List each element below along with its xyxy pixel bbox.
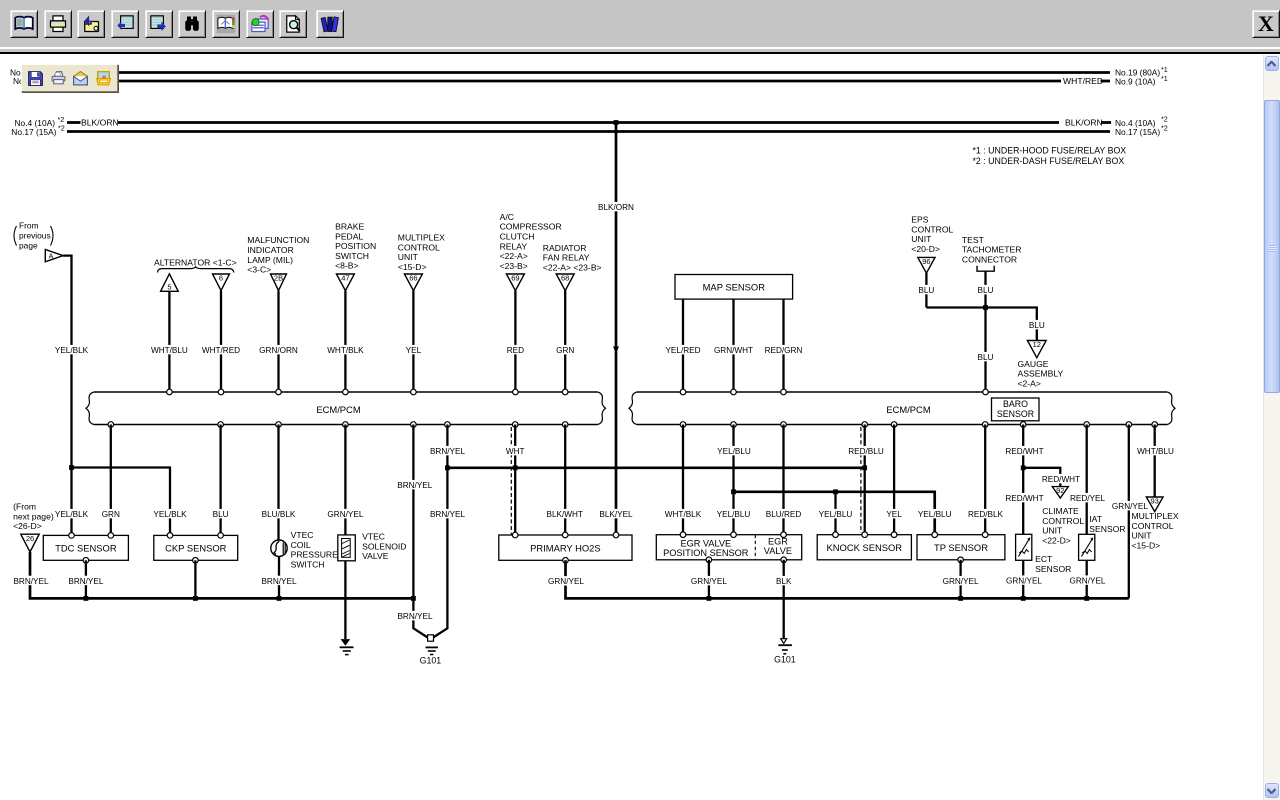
svg-text:CONTROL: CONTROL	[398, 242, 440, 252]
node junction WHT y468	[513, 465, 518, 470]
component IAT SENSOR box	[1079, 534, 1095, 560]
connector from-previous-page text	[14, 221, 53, 251]
connector triangle 68 radiator fan relay	[556, 274, 574, 291]
pin ECM right bottom x=1023.2	[1020, 422, 1026, 428]
svg-text:ASSEMBLY: ASSEMBLY	[1018, 369, 1064, 379]
wire BRN/YEL ckp to bus	[194, 560, 196, 598]
wire WHT ecm to HO2S	[514, 425, 516, 536]
label MULTIPLEX CONTROL UNIT <15-D> right	[1132, 511, 1179, 550]
component VTEC coil pressure switch circle	[271, 540, 287, 556]
label wire RED	[507, 345, 524, 355]
pin ECM right top x=783.5	[781, 389, 787, 395]
pin ECM left top x=169.4	[167, 389, 173, 395]
pin TDC top 2	[108, 533, 114, 539]
connector triangle 96 EPS	[918, 257, 935, 273]
wire WHT/BLU alternator-5 to ECM	[168, 291, 170, 392]
svg-text:FAN RELAY: FAN RELAY	[543, 253, 590, 263]
svg-text:GRN: GRN	[102, 510, 120, 519]
wire WHT/BLK ecm to egr	[682, 425, 684, 535]
label wire BRN/YEL left	[13, 576, 48, 586]
svg-text:(From: (From	[13, 502, 36, 512]
svg-text:*1: *1	[1161, 74, 1168, 83]
connector triangle 69 A/C relay	[506, 274, 524, 291]
label wire BRN/YEL vtec switch	[261, 576, 296, 586]
node junction bus end BRN/YEL	[411, 596, 416, 601]
pin ECM left bottom x=447.4	[445, 422, 451, 428]
svg-text:*2: *2	[1161, 124, 1168, 133]
label wire YEL/BLK upper	[55, 345, 89, 355]
svg-text:<15-D>: <15-D>	[1132, 541, 1161, 551]
svg-text:SWITCH: SWITCH	[291, 560, 325, 570]
pin ECM right bottom x=683	[680, 422, 686, 428]
pin KNOCK top 2	[862, 532, 868, 538]
wire WHT/RED alternator-6 to ECM	[220, 291, 222, 392]
svg-text:POSITION SENSOR: POSITION SENSOR	[663, 548, 749, 558]
label EPS CONTROL UNIT <20-D>	[911, 215, 953, 254]
component KNOCK SENSOR box	[817, 535, 911, 560]
wire YEL/BLK branch to CKP	[72, 468, 171, 536]
svg-text:96: 96	[922, 257, 930, 266]
pin ECM right bottom x=783.5	[781, 422, 787, 428]
svg-text:*2: *2	[58, 124, 65, 133]
svg-text:*1: *1	[1161, 65, 1168, 74]
wire shield dashed RED/BLU	[860, 427, 862, 533]
label fuse left hidden No.9	[13, 76, 54, 86]
wire fuse line No.9 (10A) WHT/RED	[65, 80, 1110, 83]
wire BLU/BLK ecm to vtec switch	[277, 425, 279, 541]
label wire BLU/BLK	[262, 509, 296, 519]
label ALTERNATOR <1-C>	[154, 257, 237, 267]
wire BRN/YEL from triangle 26 to bus	[30, 552, 413, 598]
svg-text:<22-A>: <22-A>	[500, 251, 528, 261]
pin EGR top 2	[731, 532, 737, 538]
wire BLU ecm to CKP	[219, 425, 221, 536]
pin ECM left bottom x=110.8	[108, 422, 114, 428]
component MAP SENSOR box	[675, 275, 793, 300]
label wire YEL/BLK ckp	[153, 509, 187, 519]
pin ECM left bottom x=220.6	[218, 422, 224, 428]
svg-text:RED/GRN: RED/GRN	[765, 346, 803, 355]
pin EGR bottom 2	[781, 557, 787, 563]
label MULTIPLEX CONTROL UNIT <15-D> top	[398, 233, 445, 272]
label GAUGE ASSEMBLY <2-A>	[1018, 359, 1064, 389]
wire fuse line No.19 (80A)	[65, 71, 1110, 74]
svg-text:CKP SENSOR: CKP SENSOR	[165, 542, 227, 553]
pin ECM right top x=683	[680, 389, 686, 395]
pin KNOCK top 1	[833, 532, 839, 538]
svg-text:G101: G101	[420, 655, 442, 665]
wire BLU/RED ecm to egr	[782, 425, 784, 535]
pin ECM right top x=733.5	[731, 389, 737, 395]
pin TDC bottom	[83, 558, 89, 564]
svg-text:BLU: BLU	[918, 286, 934, 295]
arrow on BLK/ORN trunk	[613, 347, 619, 354]
pin CKP top 2	[218, 533, 224, 539]
svg-text:IAT: IAT	[1089, 514, 1102, 524]
svg-text:BRN/YEL: BRN/YEL	[13, 577, 48, 586]
wire YEL multiplex to ECM	[412, 291, 414, 392]
svg-text:BRN/YEL: BRN/YEL	[430, 510, 465, 519]
svg-text:GRN/YEL: GRN/YEL	[691, 577, 727, 586]
label wire RED/GRN	[765, 345, 803, 355]
pin ECM right bottom x=985.2	[982, 422, 988, 428]
svg-text:SWITCH: SWITCH	[335, 251, 369, 261]
pin KNOCK top 3	[891, 532, 897, 538]
svg-text:MAP SENSOR: MAP SENSOR	[703, 282, 766, 293]
label wire WHT/BLU	[151, 345, 188, 355]
svg-text:UNIT: UNIT	[398, 252, 419, 262]
svg-text:RED/YEL: RED/YEL	[1070, 494, 1105, 503]
label wire GRN/YEL ect	[1006, 575, 1042, 585]
component ECT SENSOR box	[1016, 534, 1032, 560]
svg-text:ECM/PCM: ECM/PCM	[886, 404, 930, 415]
svg-text:GRN/YEL: GRN/YEL	[1112, 502, 1148, 511]
svg-text:WHT/BLK: WHT/BLK	[665, 510, 702, 519]
wire vtec solenoid to ground	[344, 561, 346, 639]
label wire YEL/BLU egr	[717, 509, 751, 519]
wire BLK/WHT ecm to HO2S	[564, 425, 566, 536]
pin ECM right bottom x=1154.7	[1152, 422, 1158, 428]
node junction bus VTEC switch	[277, 596, 282, 601]
svg-text:G101: G101	[774, 655, 796, 665]
svg-text:<26-D>: <26-D>	[13, 521, 42, 531]
svg-text:CONNECTOR: CONNECTOR	[962, 255, 1017, 265]
wire YEL/BLU ecm to egr	[732, 425, 734, 535]
svg-text:COIL: COIL	[291, 540, 311, 550]
svg-text:YEL: YEL	[406, 346, 422, 355]
ground vtec solenoid	[340, 639, 354, 655]
svg-text:YEL/BLU: YEL/BLU	[717, 447, 751, 456]
svg-text:A/C: A/C	[500, 212, 514, 222]
svg-text:BLK/ORN: BLK/ORN	[598, 203, 634, 212]
label wire GRN/YEL solenoid	[327, 509, 363, 519]
connector triangle 2B MIL	[271, 274, 287, 291]
pin ECM right bottom x=733.5	[731, 422, 737, 428]
wire RED/GRN map to ECM	[782, 299, 784, 392]
svg-text:UNIT: UNIT	[911, 234, 932, 244]
svg-text:LAMP (MIL): LAMP (MIL)	[247, 255, 293, 265]
wire GRN/YEL ect to bus	[1022, 560, 1024, 598]
svg-text:ECM/PCM: ECM/PCM	[316, 404, 360, 415]
svg-text:No.9 (10A): No.9 (10A)	[1115, 77, 1156, 87]
pin EGR bottom 1	[706, 557, 712, 563]
wire GRN/WHT map to ECM	[732, 299, 734, 392]
pin ECM right bottom x=1128.8	[1126, 422, 1132, 428]
pin ECM left top x=278.5	[276, 389, 282, 395]
component VTEC solenoid valve box	[338, 535, 356, 561]
label wire BRN/YEL g101	[397, 611, 432, 621]
note *2 under-dash fuse/relay box	[973, 156, 1125, 166]
pin ECM left top x=413.4	[411, 389, 417, 395]
svg-text:WHT: WHT	[506, 447, 525, 456]
svg-text:YEL/BLK: YEL/BLK	[153, 510, 187, 519]
label wire YEL/BLU knock	[819, 509, 853, 519]
label VTEC COIL PRESSURE SWITCH	[291, 530, 339, 569]
label wire GRN tdc	[102, 509, 120, 519]
pin ECM left top x=221	[218, 389, 224, 395]
label wire RED/WHT lower	[1005, 493, 1043, 503]
svg-text:next page): next page)	[13, 511, 54, 521]
svg-text:GRN/YEL: GRN/YEL	[943, 577, 979, 586]
svg-text:UNIT: UNIT	[1042, 526, 1063, 536]
label wire YEL	[405, 345, 421, 355]
svg-text:*1 : UNDER-HOOD FUSE/RELAY BOX: *1 : UNDER-HOOD FUSE/RELAY BOX	[973, 145, 1127, 155]
wire GRN/YEL ecm to vtec solenoid	[344, 425, 346, 535]
pin TP top 1	[932, 532, 938, 538]
component EGR VALVE POSITION SENSOR / EGR VALVE box	[656, 535, 801, 560]
label wire RED/YEL	[1070, 493, 1105, 503]
wire shield dashed WHT	[510, 427, 512, 535]
wire RED a/c relay to ECM	[514, 291, 516, 392]
label fuse right No.9 (10A) *1	[1115, 74, 1168, 87]
svg-text:SENSOR: SENSOR	[997, 409, 1034, 419]
svg-text:RADIATOR: RADIATOR	[543, 243, 587, 253]
wire GRN fan relay to ECM	[564, 291, 566, 392]
wire YEL/BLK from triangle A	[63, 256, 72, 536]
label wire color WHT/RED right	[1063, 76, 1103, 86]
pin CKP top 1	[167, 533, 173, 539]
svg-text:CLIMATE: CLIMATE	[1042, 506, 1079, 516]
pin EGR top 3	[781, 532, 787, 538]
svg-text:66: 66	[409, 274, 417, 283]
label fuse left hidden No.19	[10, 68, 55, 78]
application toolbar	[0, 0, 1280, 47]
node junction bus iat	[1084, 596, 1089, 601]
svg-text:WHT/BLK: WHT/BLK	[327, 346, 364, 355]
wire BLU tachometer to ECM	[984, 271, 986, 392]
svg-text:BRN/YEL: BRN/YEL	[68, 577, 103, 586]
label fuse left No.17 (15A) *2	[11, 124, 64, 137]
label TEST TACHOMETER CONNECTOR	[962, 235, 1022, 265]
svg-text:EGR VALVE: EGR VALVE	[680, 539, 731, 549]
svg-text:92: 92	[1056, 486, 1064, 495]
pin HO2S top 2	[562, 532, 568, 538]
svg-text:47: 47	[341, 274, 349, 283]
label wire color BLK/ORN right	[1065, 118, 1103, 128]
wire GRN ecm to TDC	[110, 425, 112, 536]
connector triangle 92 climate control	[1052, 486, 1068, 498]
wire YEL/BLU branch y492	[734, 492, 935, 535]
pin TP top 2	[982, 532, 988, 538]
pin CKP bottom	[193, 558, 199, 564]
label wire WHT	[506, 446, 525, 456]
svg-text:RED/WHT: RED/WHT	[1005, 447, 1043, 456]
svg-text:GRN/ORN: GRN/ORN	[259, 346, 298, 355]
svg-text:POSITION: POSITION	[335, 241, 376, 251]
svg-text:COMPRESSOR: COMPRESSOR	[500, 222, 562, 232]
pin EGR top 1	[680, 532, 686, 538]
svg-text:<2-A>: <2-A>	[1018, 379, 1041, 389]
svg-text:INDICATOR: INDICATOR	[247, 245, 293, 255]
svg-text:UNIT: UNIT	[1132, 531, 1153, 541]
label wire YEL knock	[886, 509, 902, 519]
svg-text:YEL/BLU: YEL/BLU	[717, 510, 751, 519]
connector triangle 12 gauge assembly	[1027, 340, 1046, 358]
svg-text:BRN/YEL: BRN/YEL	[430, 447, 465, 456]
node junction RED/BLU y468 end	[862, 465, 867, 470]
svg-text:RED/WHT: RED/WHT	[1005, 494, 1043, 503]
svg-text:EPS: EPS	[911, 215, 928, 225]
wire BRN/YEL ecm447 to G101	[433, 425, 447, 638]
svg-text:BLU/RED: BLU/RED	[766, 510, 802, 519]
ground G101 left	[420, 635, 442, 666]
label wire BLU/RED egr	[766, 509, 802, 519]
svg-text:69: 69	[511, 274, 519, 283]
node junction bus CKP	[193, 596, 198, 601]
svg-text:WHT/RED: WHT/RED	[1063, 76, 1103, 86]
wire BRN/YEL vtec switch to bus	[278, 556, 280, 598]
label wire BRN/YEL tdc	[68, 576, 103, 586]
wire WHT/BLU ecm to triangle 93	[1154, 425, 1156, 498]
node junction bus tp	[958, 596, 963, 601]
pin TP bottom	[958, 557, 964, 563]
wire GRN/YEL tp to bus	[959, 560, 961, 599]
pin ECM right bottom x=894.1	[891, 422, 897, 428]
svg-text:YEL: YEL	[886, 510, 902, 519]
svg-text:No.17 (15A): No.17 (15A)	[1115, 127, 1160, 137]
svg-text:RED/WHT: RED/WHT	[1042, 475, 1080, 484]
label wire BLK/ORN trunk	[598, 202, 634, 212]
wire BRN/YEL ecm413 to bus and G101	[413, 425, 427, 638]
svg-text:BLK/ORN: BLK/ORN	[81, 118, 119, 128]
wire RED/BLU ecm to knock	[864, 425, 866, 535]
pin HO2S top 3	[613, 532, 619, 538]
svg-text:GRN/YEL: GRN/YEL	[327, 510, 363, 519]
label wire WHT/BLK egr	[665, 509, 702, 519]
wire GRN/ORN MIL to ECM	[277, 291, 279, 392]
svg-text:GRN/YEL: GRN/YEL	[1006, 576, 1042, 585]
svg-text:BLU: BLU	[978, 353, 994, 362]
pin ECM left bottom x=278.5	[276, 422, 282, 428]
svg-text:TDC SENSOR: TDC SENSOR	[55, 542, 117, 553]
wire fuse line No.17 (15A)	[67, 130, 1110, 133]
wire GRN/YEL ho2s to bus	[566, 560, 1129, 598]
svg-text:EGR: EGR	[768, 537, 788, 547]
svg-text:RED/BLK: RED/BLK	[968, 510, 1004, 519]
svg-text:SENSOR: SENSOR	[1089, 524, 1125, 534]
svg-text:GRN/YEL: GRN/YEL	[548, 577, 584, 586]
wire GRN/YEL ecm to bus right end	[1128, 425, 1130, 599]
svg-text:YEL/RED: YEL/RED	[665, 346, 700, 355]
label wire GRN	[556, 345, 574, 355]
component TDC SENSOR box	[43, 535, 128, 560]
label wire BRN/YEL 447 upper	[430, 446, 465, 456]
svg-text:BRN/YEL: BRN/YEL	[397, 612, 432, 621]
pin ECM left bottom x=565.2	[562, 422, 568, 428]
label wire GRN/YEL iat	[1070, 575, 1106, 585]
svg-text:YEL/BLK: YEL/BLK	[55, 346, 89, 355]
connector triangle A (from previous page)	[45, 250, 63, 262]
svg-text:VALVE: VALVE	[764, 546, 792, 556]
wire RED/YEL ecm to iat	[1086, 425, 1088, 535]
svg-text:No.17 (15A): No.17 (15A)	[11, 127, 56, 137]
label wire WHT/BLU	[1137, 446, 1174, 456]
svg-text:5: 5	[167, 283, 171, 292]
pin ECM left top x=565.2	[562, 389, 568, 395]
svg-text:CLUTCH: CLUTCH	[500, 232, 535, 242]
connector triangle 66 multiplex	[404, 274, 422, 291]
svg-text:93: 93	[1151, 497, 1159, 506]
label wire BLU eps	[918, 285, 934, 295]
label CLIMATE CONTROL UNIT <22-D>	[1042, 506, 1084, 545]
connector bracket test tachometer	[977, 266, 994, 272]
svg-text:BLU: BLU	[1029, 321, 1045, 330]
svg-text:<22-D>: <22-D>	[1042, 535, 1071, 545]
component ECM/PCM box left	[86, 392, 606, 425]
label wire RED/BLU	[848, 446, 884, 456]
node junction BLK/ORN on No.4 line	[614, 120, 619, 125]
label wire WHT/RED	[202, 345, 240, 355]
svg-text:BRN/YEL: BRN/YEL	[397, 481, 432, 490]
label IAT SENSOR	[1089, 514, 1125, 534]
label wire GRN/YEL egr	[691, 576, 727, 586]
component PRIMARY HO2S box	[499, 535, 632, 560]
pin HO2S top 1	[512, 532, 518, 538]
svg-text:BLU/BLK: BLU/BLK	[262, 510, 296, 519]
svg-text:BLK/WHT: BLK/WHT	[546, 510, 582, 519]
connector from-next-page text	[13, 502, 54, 532]
pin ECM right bottom x=1086.7	[1084, 422, 1090, 428]
label fuse right No.17 (15A) *2	[1115, 124, 1168, 138]
connector triangle 26 (from next page)	[21, 534, 39, 552]
svg-text:BLK/ORN: BLK/ORN	[1065, 118, 1103, 128]
label A/C COMPRESSOR CLUTCH RELAY <22-A> <23-B>	[500, 212, 562, 271]
svg-text:MULTIPLEX: MULTIPLEX	[398, 233, 445, 243]
svg-text:26: 26	[26, 534, 34, 543]
wire GRN/YEL iat to bus	[1086, 560, 1088, 598]
wire YEL ecm to knock	[893, 425, 895, 535]
pin ECM left top x=515.4	[513, 389, 519, 395]
svg-text:<3-C>: <3-C>	[247, 265, 271, 275]
label wire BLU ckp	[213, 509, 229, 519]
ground G101 right	[774, 639, 796, 665]
svg-text:RELAY: RELAY	[500, 241, 528, 251]
label wire YEL/RED	[665, 345, 700, 355]
component CKP SENSOR box	[154, 535, 238, 560]
wire BLK/ORN vertical trunk	[615, 123, 618, 536]
svg-text:BARO: BARO	[1003, 399, 1028, 409]
node junction RED/WHT	[1021, 465, 1026, 470]
label wire GRN/ORN	[259, 345, 298, 355]
svg-text:YEL/BLU: YEL/BLU	[819, 510, 853, 519]
brace alternator	[158, 267, 234, 273]
svg-text:<23-B>: <23-B>	[500, 261, 528, 271]
svg-text:MALFUNCTION: MALFUNCTION	[247, 235, 309, 245]
svg-text:6: 6	[219, 274, 223, 283]
component TP SENSOR box	[917, 535, 1005, 560]
svg-text:ECT: ECT	[1035, 554, 1053, 564]
label MALFUNCTION INDICATOR LAMP (MIL) <3-C>	[247, 235, 309, 274]
label fuse left No.4 (10A) *2	[15, 115, 65, 128]
pin ECM right top x=985.5	[983, 389, 989, 395]
component BARO SENSOR box	[992, 398, 1040, 421]
label VTEC SOLENOID VALVE	[362, 532, 406, 562]
label wire RED/WHT climate	[1042, 474, 1080, 484]
label wire GRN/WHT	[714, 345, 753, 355]
wire shield bus y468	[447, 466, 864, 469]
pin HO2S bottom	[563, 558, 569, 564]
floating image palette	[21, 64, 118, 92]
svg-text:VALVE: VALVE	[362, 551, 389, 561]
label fuse right No.19 (80A) *1	[1115, 65, 1168, 78]
svg-text:BRAKE: BRAKE	[335, 222, 364, 232]
svg-text:TACHOMETER: TACHOMETER	[962, 245, 1022, 255]
wire YEL/BLU to knock	[834, 492, 836, 535]
label wire YEL/BLU tp	[918, 509, 952, 519]
node junction BLU tach	[983, 305, 988, 310]
svg-text:<20-D>: <20-D>	[911, 244, 940, 254]
svg-text:YEL/BLU: YEL/BLU	[918, 510, 952, 519]
